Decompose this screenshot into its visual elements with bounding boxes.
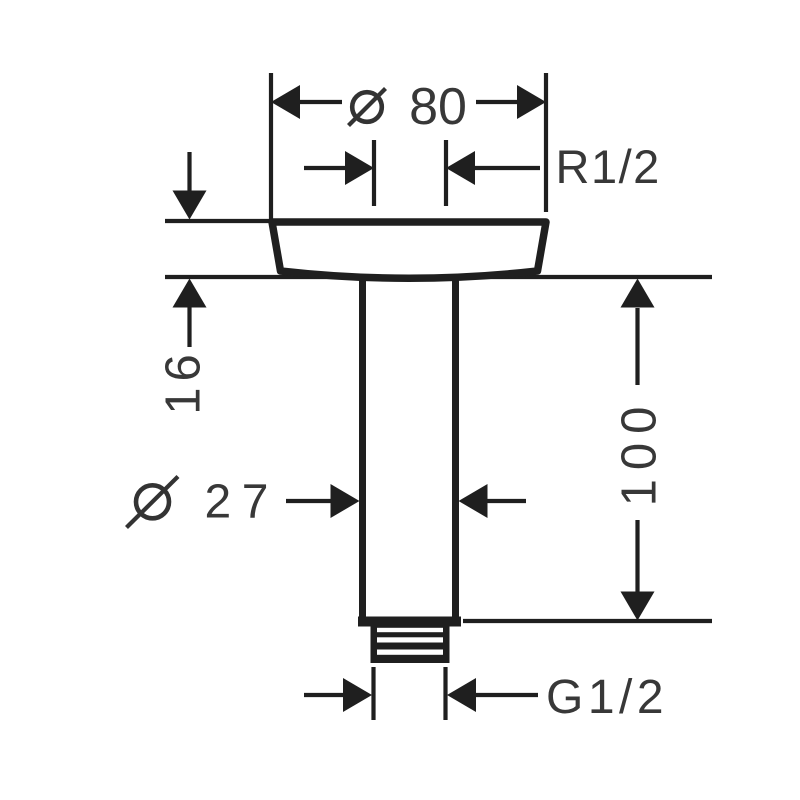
svg-text:R1/2: R1/2 [556,140,661,193]
svg-text:100: 100 [613,398,667,507]
svg-text:80: 80 [409,78,467,136]
svg-text:G1/2: G1/2 [546,671,668,724]
svg-text:16: 16 [157,348,211,415]
svg-text:27: 27 [205,476,279,529]
